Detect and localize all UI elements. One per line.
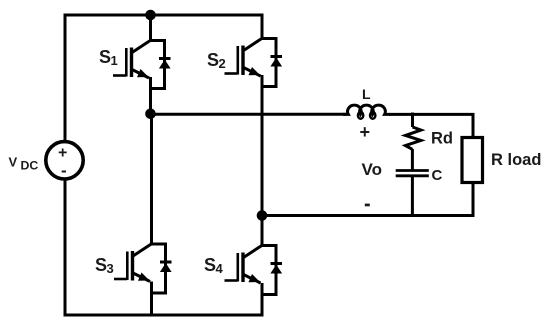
S4 diode triangle	[270, 265, 282, 274]
wire S2 collector	[261, 14, 264, 39]
svg-text:3: 3	[107, 261, 114, 276]
S2 gate lead	[225, 72, 238, 75]
wire bottom rail	[64, 314, 264, 317]
S3 gate lead	[114, 278, 127, 281]
S2 gate bar	[237, 46, 240, 75]
S1 emitter vertical	[149, 77, 152, 114]
svg-text:R load: R load	[491, 151, 541, 169]
S1 gate lead	[113, 74, 126, 77]
S2 emitter arrowhead	[249, 67, 261, 75]
label S4	[204, 255, 224, 276]
S1 emitter diagonal	[132, 70, 149, 79]
S2 body bar	[241, 46, 244, 76]
wire output bottom	[262, 181, 473, 216]
node top (junction dot)	[145, 10, 156, 21]
dc source V_DC	[46, 142, 83, 180]
S3 emitter diagonal	[133, 273, 150, 282]
svg-text:C: C	[432, 167, 443, 184]
svg-text:S: S	[99, 47, 111, 67]
wire mid rail (output +)	[151, 113, 347, 116]
svg-text:1: 1	[111, 53, 118, 68]
wire S1 collector	[149, 15, 152, 41]
svg-text:4: 4	[216, 261, 224, 276]
transistor S2 (IGBT with freewheel diode)	[225, 14, 283, 216]
label S3	[95, 255, 114, 276]
S2 diode triangle	[270, 58, 282, 67]
node mid-left (junction dot)	[145, 109, 156, 120]
wire top rail	[65, 14, 262, 17]
wire C bottom	[411, 177, 414, 217]
S4 emitter diagonal	[244, 275, 261, 284]
wire left vertical (source top)	[64, 14, 67, 142]
S4 gate bar	[237, 253, 240, 282]
transistor S3 (IGBT with freewheel diode)	[114, 114, 172, 317]
S3 emitter arrowhead	[138, 273, 150, 281]
S4 gate lead	[225, 279, 238, 282]
resistor Rd (zigzag)	[396, 113, 429, 218]
S4 diode cathode bar	[271, 262, 283, 265]
S2 emitter diagonal	[244, 68, 261, 77]
S2 emitter vertical	[261, 75, 264, 216]
svg-text:Rd: Rd	[431, 130, 453, 148]
node mid-right (junction dot)	[257, 210, 268, 221]
svg-text:Vo: Vo	[362, 160, 382, 179]
svg-text:2: 2	[219, 56, 226, 71]
S4 emitter arrowhead	[249, 274, 261, 282]
Rd zigzag	[405, 127, 421, 149]
S3 diode top stub	[152, 244, 166, 293]
capacitor C bottom plate	[396, 174, 429, 177]
label S1	[99, 47, 118, 68]
svg-text:S: S	[207, 50, 219, 70]
S4 body bar	[241, 253, 244, 283]
S4 diode top stub	[262, 246, 276, 295]
wire Rd top	[411, 113, 414, 128]
S1 diode cathode bar	[159, 57, 171, 60]
S2 diode top stub	[262, 39, 276, 87]
svg-text:V: V	[9, 155, 18, 170]
S1 body bar	[130, 48, 133, 78]
S1 diode triangle	[159, 60, 171, 69]
capacitor C top plate	[396, 169, 429, 172]
svg-text:+: +	[58, 145, 67, 162]
S1 collector diagonal	[132, 40, 151, 53]
wire Rd-C middle	[411, 149, 414, 170]
S1 gate bar	[125, 48, 128, 77]
label S2	[207, 50, 226, 71]
svg-text:DC: DC	[21, 159, 39, 173]
S3 diode cathode bar	[160, 261, 172, 264]
S3 emitter vertical	[150, 282, 153, 317]
S2 collector diagonal	[244, 38, 263, 51]
S3 body bar	[131, 251, 134, 281]
S1 diode top stub	[151, 41, 165, 89]
S4 collector diagonal	[244, 245, 263, 258]
transistor S4 (IGBT with freewheel diode)	[225, 216, 283, 317]
svg-text:+: +	[360, 122, 371, 142]
transistor S1 (IGBT with freewheel diode)	[113, 15, 171, 114]
label V DC	[9, 155, 39, 173]
S4 emitter vertical	[261, 283, 264, 317]
wire output top (after L)	[389, 114, 473, 139]
S2 diode cathode bar	[271, 55, 283, 58]
S3 diode triangle	[160, 263, 172, 272]
label - (output polarity)	[365, 204, 370, 207]
svg-text:-: -	[61, 161, 67, 180]
inductor L	[343, 105, 390, 119]
resistor R load (box)	[462, 138, 483, 183]
S3 collector diagonal	[133, 244, 152, 257]
svg-text:L: L	[362, 86, 371, 102]
svg-text:S: S	[95, 255, 107, 275]
wire left vertical (source bottom)	[64, 179, 67, 317]
svg-text:S: S	[204, 255, 216, 275]
S3 gate bar	[126, 252, 129, 281]
wire S4 collector	[261, 216, 264, 246]
S1 emitter arrowhead	[137, 69, 149, 77]
wire S3 collector	[150, 114, 153, 244]
